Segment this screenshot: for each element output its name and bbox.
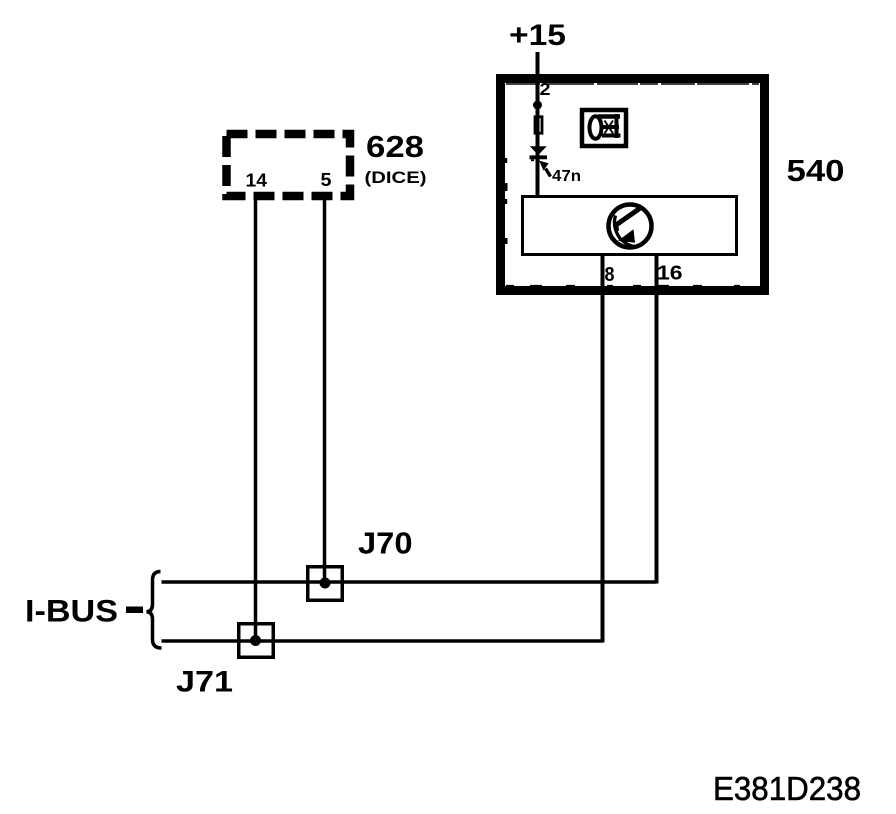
svg-text:E381D238: E381D238 bbox=[713, 771, 861, 808]
unit 540 inner bottom scan line bbox=[506, 285, 759, 287]
junction J71 dot bbox=[250, 635, 261, 646]
svg-text:+15: +15 bbox=[509, 19, 566, 52]
headlamp icon beam bottom bbox=[602, 134, 621, 138]
pump motor symbol M bbox=[609, 205, 652, 248]
svg-text:I-BUS: I-BUS bbox=[25, 593, 118, 629]
headlamp icon right bar bbox=[615, 114, 619, 138]
svg-text:628: 628 bbox=[366, 130, 424, 164]
headlamp icon box (internal symbol) bbox=[582, 110, 626, 146]
junction dot on pin 2 wire bbox=[533, 101, 542, 110]
wire pin 16 to top I-BUS line bbox=[655, 255, 659, 584]
svg-text:(DICE): (DICE) bbox=[365, 168, 427, 187]
headlamp icon lamp ellipse bbox=[590, 116, 602, 139]
junction J70 dot bbox=[320, 578, 331, 589]
wire pin 14 to junction J71 bbox=[254, 200, 258, 641]
svg-text:5: 5 bbox=[321, 170, 332, 190]
wire pin 8 to bottom I-BUS line bbox=[601, 255, 605, 643]
svg-text:2: 2 bbox=[540, 79, 551, 99]
unit 540 outer box bbox=[501, 79, 765, 291]
wire from +15 into unit 540 bbox=[536, 52, 540, 197]
svg-text:16: 16 bbox=[657, 263, 683, 285]
unit 540 inner top scan line bbox=[506, 83, 759, 85]
svg-text:14: 14 bbox=[246, 171, 268, 191]
I-BUS bottom line bbox=[162, 639, 603, 643]
I-BUS brace bbox=[147, 572, 162, 649]
headlamp icon beam middle bbox=[602, 125, 619, 129]
I-BUS top line bbox=[162, 580, 657, 584]
I-BUS dash bbox=[126, 607, 143, 614]
svg-text:8: 8 bbox=[605, 264, 615, 286]
svg-text:J70: J70 bbox=[358, 527, 413, 561]
svg-text:540: 540 bbox=[787, 154, 845, 188]
unit 628 dashed box (DICE) bbox=[227, 134, 351, 196]
capacitor arrow 47n bbox=[546, 169, 551, 177]
headlamp icon cross bbox=[605, 121, 614, 134]
wire pin 5 to junction J70 bbox=[323, 200, 327, 583]
svg-text:47n: 47n bbox=[552, 168, 581, 185]
junction J71 box bbox=[239, 624, 274, 658]
zener diode V (internal) bbox=[530, 146, 547, 155]
unit 540 left border scan nubs bbox=[505, 158, 507, 163]
fuse F (internal) bbox=[535, 117, 542, 133]
svg-text:J71: J71 bbox=[176, 666, 233, 699]
headlamp icon beam top bbox=[598, 114, 620, 119]
junction J70 box bbox=[308, 567, 343, 601]
pump module inner rectangle bbox=[523, 197, 737, 255]
